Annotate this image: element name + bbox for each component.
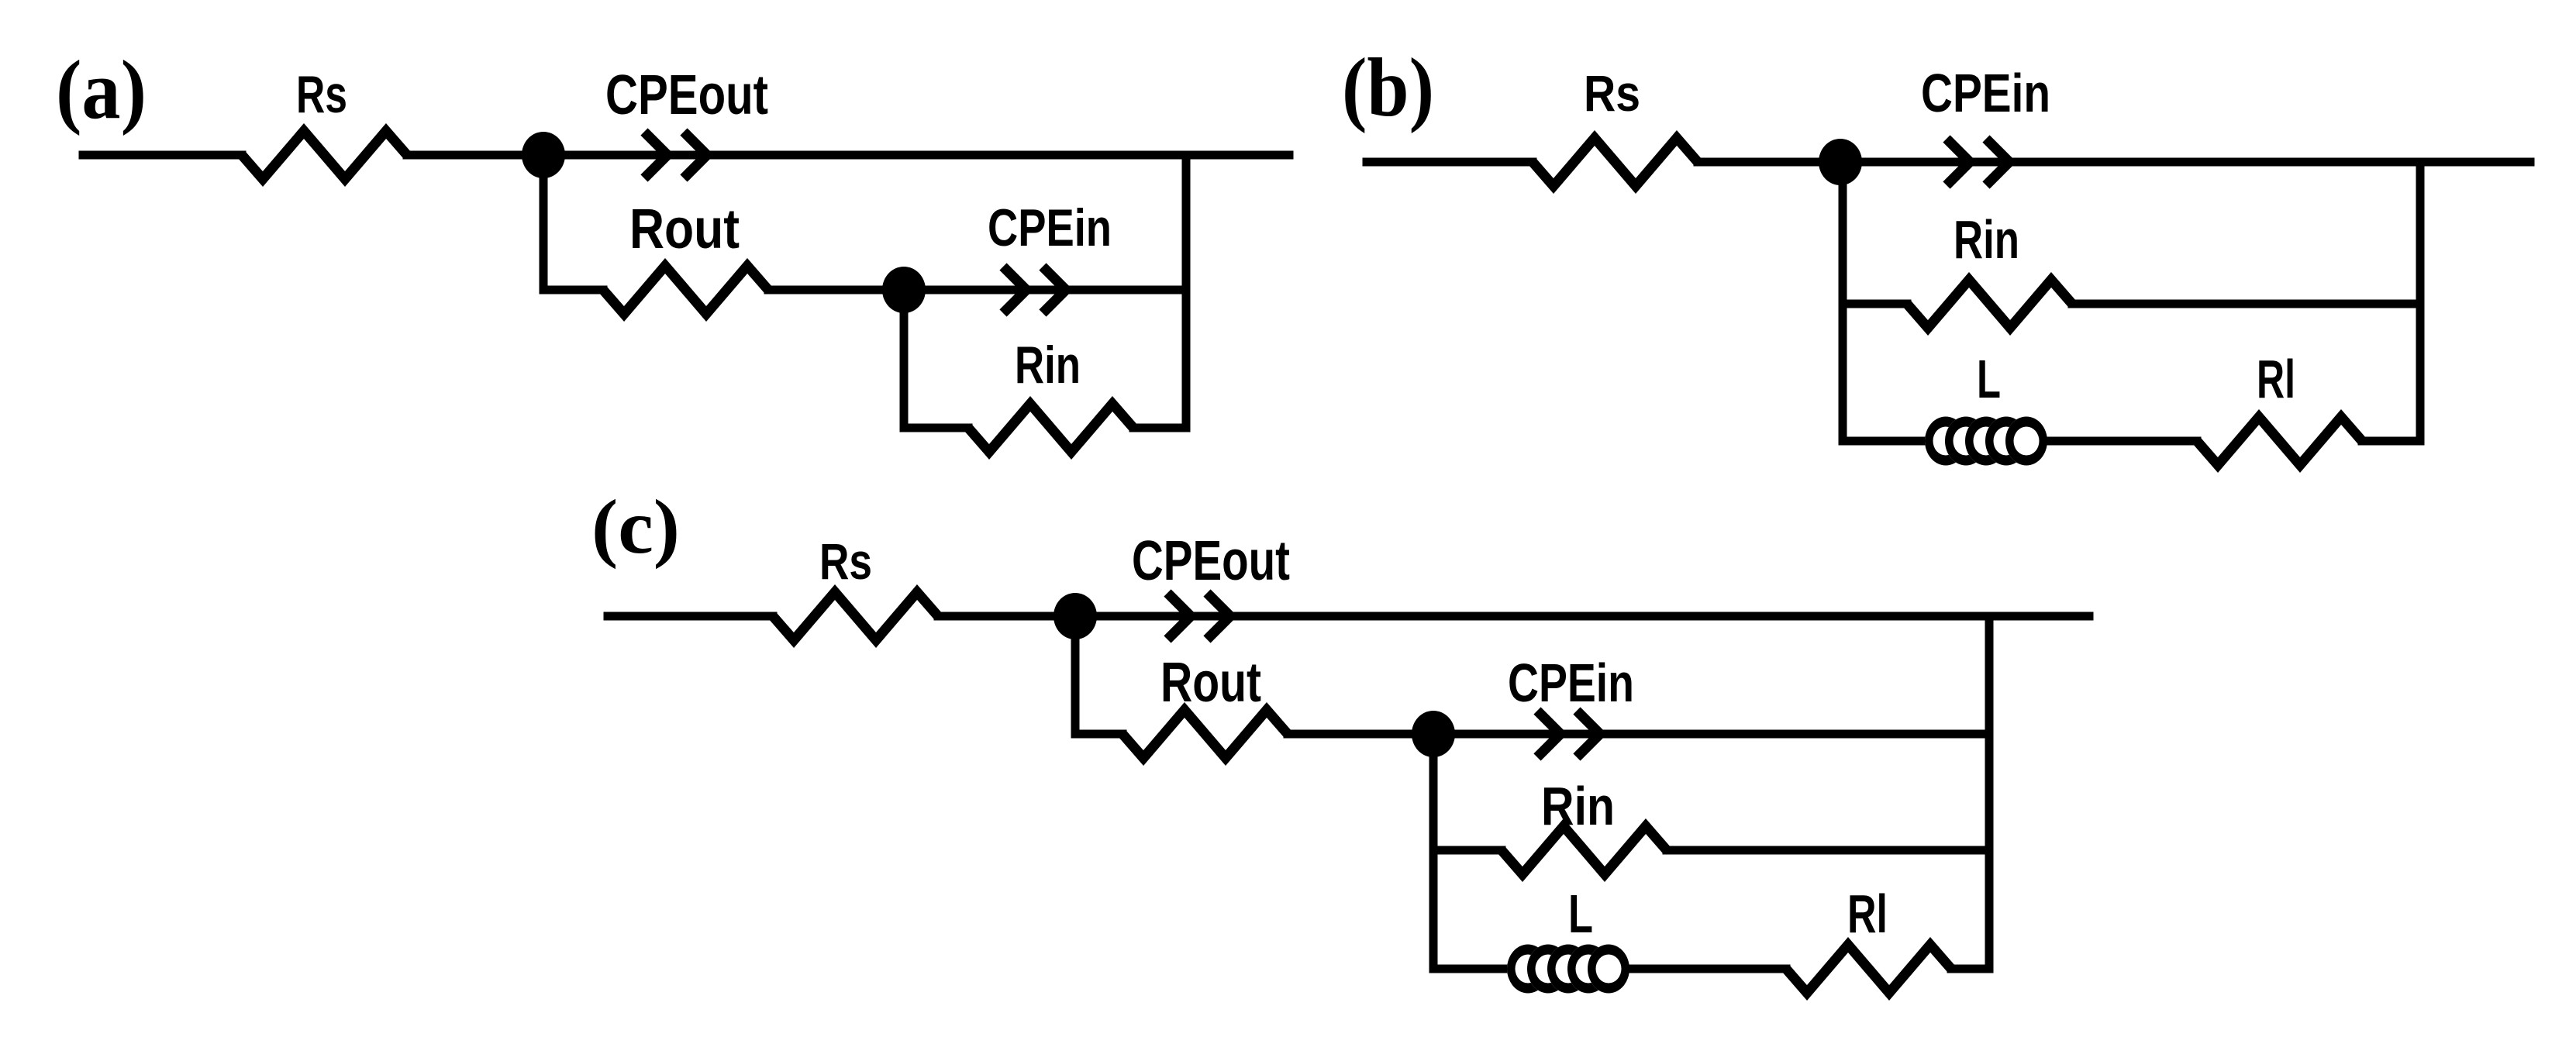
CPE symbol CPEin (a) (1003, 267, 1066, 313)
wire a top rail (407, 151, 1289, 160)
svg-text:Rin: Rin (1954, 209, 2019, 270)
svg-text:(a): (a) (56, 44, 147, 136)
CPE symbol CPEout (c) (1167, 593, 1230, 639)
svg-text:CPEout: CPEout (1132, 530, 1290, 592)
svg-text:(c): (c) (591, 484, 680, 570)
svg-text:CPEout: CPEout (605, 64, 768, 126)
svg-text:CPEin: CPEin (988, 198, 1112, 257)
wire a node2 stem to bottom branch (904, 290, 968, 428)
wire a bottom right + right vertical (1133, 155, 1186, 428)
resistor Rin (a) (968, 404, 1133, 452)
CPE symbol CPEin (b) (1947, 139, 2009, 185)
svg-text:Rs: Rs (1584, 64, 1640, 122)
resistor Rs (a) (242, 131, 407, 179)
wire c Rin branch left (1433, 846, 1502, 855)
resistor Rin (b) (1907, 280, 2072, 328)
resistor Rl (c) (1786, 945, 1951, 993)
svg-text:CPEin: CPEin (1921, 63, 2050, 123)
wire c Rin branch right (1667, 846, 1989, 855)
node C2 (c) (1412, 711, 1455, 757)
svg-text:Rs: Rs (296, 65, 347, 124)
svg-text:Rs: Rs (819, 532, 872, 590)
wire b bottom branch middle (2047, 437, 2197, 446)
node B1 (b) (1819, 139, 1862, 185)
inductor L (c) (1507, 945, 1629, 994)
node A1 (a) (522, 132, 565, 178)
resistor Rs (c) (773, 592, 938, 640)
node C1 (c) (1054, 593, 1097, 639)
wire c top rail (938, 612, 2089, 621)
wire a node1 stem to mid branch (543, 155, 603, 290)
svg-text:Rin: Rin (1015, 336, 1081, 394)
wire c bottom branch middle (1631, 965, 1786, 973)
wire c node2 stem to bottom branch (1433, 734, 1507, 969)
resistor Rout (a) (603, 266, 768, 314)
wire b Rin branch right (2072, 300, 2420, 308)
resistor Rl (b) (2197, 417, 2362, 465)
CPE symbol CPEout (a) (644, 132, 707, 178)
wire c bottom right + right vertical (1951, 616, 1989, 969)
wire a input (83, 151, 242, 160)
node A2 (a) (882, 267, 926, 313)
svg-text:Rout: Rout (1160, 652, 1261, 714)
CPE symbol CPEin (c) (1537, 711, 1600, 757)
wire c node1 stem to mid branch (1075, 616, 1122, 734)
svg-text:Rout: Rout (629, 198, 740, 260)
svg-text:Rl: Rl (2257, 349, 2295, 409)
resistor Rin (c) (1502, 826, 1667, 874)
inductor L (b) (1925, 417, 2047, 466)
svg-text:(b): (b) (1342, 42, 1434, 134)
resistor Rout (c) (1122, 710, 1288, 758)
wire b Rin branch left (1843, 300, 1907, 308)
wire c mid branch right (1288, 730, 1989, 739)
wire b input (1367, 158, 1533, 167)
wire b bottom right + right vertical (2362, 162, 2420, 441)
svg-text:L: L (1977, 349, 2001, 409)
wire c input (608, 612, 773, 621)
resistor Rs (b) (1533, 138, 1698, 186)
svg-text:Rin: Rin (1541, 776, 1615, 836)
wire b top rail (1698, 158, 2530, 167)
svg-text:L: L (1568, 884, 1593, 944)
svg-text:CPEin: CPEin (1508, 653, 1634, 713)
wire a mid branch right (768, 286, 1186, 295)
wire b node stem to bottom branch (1843, 162, 1925, 441)
svg-text:Rl: Rl (1847, 884, 1888, 944)
